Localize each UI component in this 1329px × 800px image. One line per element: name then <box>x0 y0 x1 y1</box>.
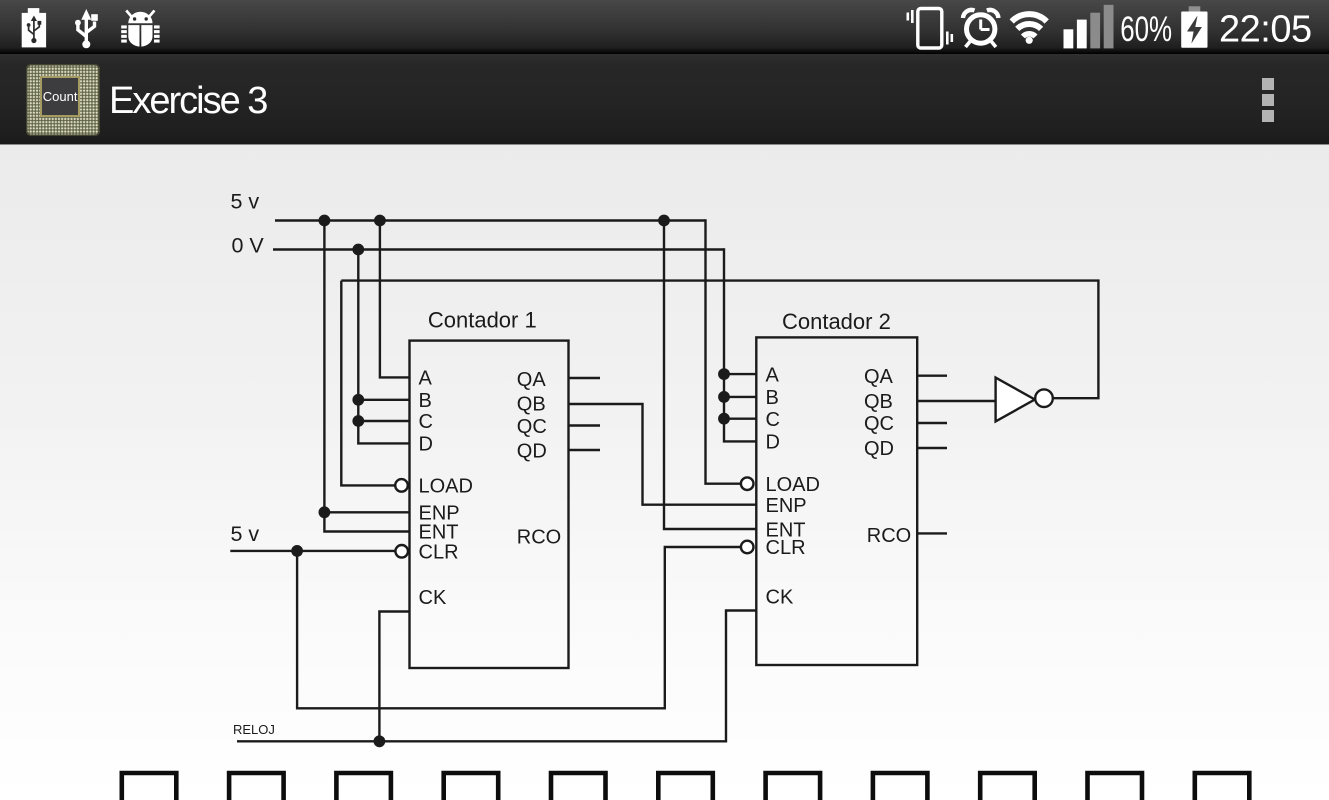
title <box>109 82 266 120</box>
net 5V rail 1 wire <box>275 219 706 221</box>
svg-text:D: D <box>419 434 433 456</box>
wire 0V to B/C/D U1 <box>358 248 409 443</box>
clock waveform pulse 5 <box>551 773 606 800</box>
pin QC U2 stub <box>917 422 947 424</box>
wifi icon <box>1012 14 1047 36</box>
svg-text:0 V: 0 V <box>232 234 265 258</box>
svg-text:Contador 2: Contador 2 <box>782 309 891 334</box>
wire C U1 branch <box>358 420 409 422</box>
svg-text:C: C <box>419 411 433 433</box>
svg-text:CK: CK <box>766 587 794 609</box>
svg-text:CK: CK <box>419 587 447 609</box>
USB storage battery icon <box>22 8 46 47</box>
svg-text:QC: QC <box>517 416 547 438</box>
inverter U3 output bubble <box>1035 389 1053 407</box>
junction dot C U1 <box>352 415 364 427</box>
wire ENP U1 branch <box>324 511 409 513</box>
wire 5V to A U1 <box>380 219 410 377</box>
junction dot RELOJ / CK U1 <box>374 735 386 747</box>
pin LOAD U1 inversion bubble <box>395 479 408 492</box>
clock waveform pulse 6 <box>658 773 713 800</box>
svg-text:RCO: RCO <box>517 527 561 549</box>
junction dot ENP U1 <box>319 506 331 518</box>
junction dot 5V rail 2 / CLR U2 <box>291 545 303 557</box>
wire LOAD U1 to feedback net <box>341 281 395 486</box>
svg-text:C: C <box>766 409 780 431</box>
svg-text:QD: QD <box>517 441 547 463</box>
svg-text:QB: QB <box>864 391 893 413</box>
counter U2 box (Contador 2) <box>756 337 917 665</box>
pin CLR U1 inversion bubble <box>395 545 408 558</box>
pin QD U1 stub <box>569 449 601 451</box>
pin LOAD U2 inversion bubble <box>741 477 754 490</box>
clock waveform pulse 10 <box>1088 773 1143 800</box>
wire 5V to ENT U2 <box>664 219 756 529</box>
svg-text:RCO: RCO <box>867 525 911 547</box>
svg-text:A: A <box>766 364 780 386</box>
clock waveform pulse 8 <box>873 773 928 800</box>
pin QA U2 stub <box>917 375 947 377</box>
svg-text:QB: QB <box>517 394 546 416</box>
svg-text:A: A <box>419 368 433 390</box>
wire 5V rail to LOAD U2 (vertical drop) <box>706 219 741 483</box>
clock waveform pulse 1 <box>122 773 177 800</box>
svg-text:LOAD: LOAD <box>766 474 820 496</box>
junction dot 0V/BCD U1 <box>352 244 364 256</box>
net RELOJ wire <box>237 611 756 742</box>
svg-text:CLR: CLR <box>766 537 806 559</box>
junction dot 5V/ENT U2 <box>658 215 670 227</box>
app icon: CPU chip "Count" <box>26 64 100 136</box>
charging battery icon <box>1189 6 1201 11</box>
clock waveform pulse 3 <box>336 773 391 800</box>
counter U1 box (Contador 1) <box>410 341 569 668</box>
wire 5V to ENP/ENT U1 <box>324 219 409 531</box>
alarm clock icon <box>963 10 998 47</box>
wire U2 pin C to 0V vertical <box>724 418 756 420</box>
svg-text:QC: QC <box>864 413 894 435</box>
svg-text:B: B <box>419 390 432 412</box>
junction dot B U1 <box>352 394 364 406</box>
svg-text:LOAD: LOAD <box>419 476 473 498</box>
clock waveform pulse 7 <box>766 773 821 800</box>
USB debugging (android bug) icon <box>121 10 159 47</box>
pin RCO U2 stub <box>917 532 947 534</box>
overflow menu <box>1262 78 1274 90</box>
pin QB U2 wire to inverter input <box>917 400 995 402</box>
pin QD U2 stub <box>917 447 947 449</box>
svg-text:5 v: 5 v <box>231 190 260 214</box>
svg-text:5 v: 5 v <box>231 522 260 546</box>
wire U2 pin A to 0V vertical <box>724 373 756 375</box>
wire QB U1 to ENP U2 <box>569 404 757 505</box>
svg-text:CLR: CLR <box>419 542 459 564</box>
wire 0V down to U2 inputs A B C D <box>724 248 756 441</box>
clock waveform pulse 9 <box>980 773 1034 800</box>
svg-text:ENP: ENP <box>766 495 807 517</box>
pin CLR U2 inversion bubble <box>741 541 754 554</box>
svg-text:QA: QA <box>864 366 894 388</box>
svg-text:B: B <box>766 387 779 409</box>
wire feedback net from inverter output <box>341 281 1098 399</box>
action bar <box>0 54 1329 144</box>
wire 5V rail 2 down and across to CLR U2 <box>297 547 741 708</box>
signal strength bars <box>1064 29 1074 48</box>
clock waveform pulse 11 <box>1195 773 1250 800</box>
wire U2 pin B to 0V vertical <box>724 396 756 398</box>
svg-text:QD: QD <box>864 438 894 460</box>
vibrate icon <box>907 9 954 49</box>
status bar <box>0 0 1329 54</box>
svg-text:QA: QA <box>517 369 547 391</box>
net 0V rail wire <box>273 248 724 250</box>
net 5V rail 2 wire <box>230 550 395 552</box>
svg-text:D: D <box>766 432 780 454</box>
svg-text:ENT: ENT <box>419 522 459 544</box>
junction dot C U2 <box>718 413 730 425</box>
junction dot 5V/A U1 <box>374 215 386 227</box>
svg-text:RELOJ: RELOJ <box>233 722 275 737</box>
svg-text:Contador 1: Contador 1 <box>428 308 537 333</box>
USB connected icon <box>78 19 95 43</box>
pin QC U1 stub <box>569 424 601 426</box>
junction dot A U2 <box>718 368 730 380</box>
pin QA U1 stub <box>569 377 601 379</box>
clock waveform pulse 2 <box>229 773 284 800</box>
junction dot B U2 <box>718 391 730 403</box>
wire B U1 branch <box>358 399 409 401</box>
clock waveform pulse 4 <box>444 773 499 800</box>
wire CK U1 to RELOJ net <box>379 612 409 742</box>
inverter U3 triangle <box>996 378 1035 422</box>
junction dot 5V/ENP-ENT U1 <box>319 215 331 227</box>
